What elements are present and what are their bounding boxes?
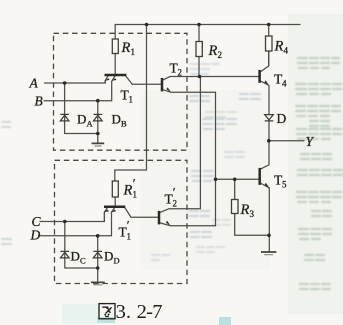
- svg-text:1: 1: [129, 95, 134, 105]
- svg-text:R: R: [208, 43, 218, 59]
- svg-text:D: D: [30, 227, 41, 242]
- svg-text:2-7: 2-7: [137, 301, 163, 323]
- svg-text:2: 2: [178, 68, 183, 78]
- svg-text:3: 3: [250, 209, 255, 219]
- svg-text:′: ′: [127, 218, 130, 233]
- svg-text:1: 1: [127, 232, 132, 242]
- svg-text:D: D: [114, 256, 120, 266]
- svg-text:2: 2: [218, 50, 223, 60]
- svg-text:3.: 3.: [116, 301, 131, 323]
- svg-text:R: R: [274, 39, 284, 55]
- svg-text:4: 4: [284, 46, 289, 56]
- svg-text:B: B: [35, 93, 43, 108]
- svg-text:4: 4: [282, 79, 287, 89]
- svg-text:′: ′: [173, 185, 176, 200]
- svg-text:1: 1: [131, 47, 136, 57]
- svg-text:′: ′: [133, 176, 136, 191]
- svg-text:D: D: [71, 249, 80, 264]
- svg-text:A: A: [29, 76, 39, 91]
- svg-text:D: D: [112, 112, 121, 127]
- svg-text:D: D: [77, 112, 86, 127]
- svg-text:1: 1: [133, 190, 138, 200]
- svg-text:D: D: [104, 249, 113, 264]
- svg-text:5: 5: [282, 180, 287, 190]
- svg-text:B: B: [121, 119, 127, 129]
- svg-text:D: D: [277, 111, 287, 126]
- svg-text:R: R: [123, 183, 133, 199]
- svg-text:R: R: [240, 202, 250, 218]
- svg-text:2: 2: [173, 199, 178, 209]
- svg-text:C: C: [80, 256, 86, 266]
- svg-text:R: R: [121, 40, 131, 56]
- svg-text:A: A: [87, 119, 94, 129]
